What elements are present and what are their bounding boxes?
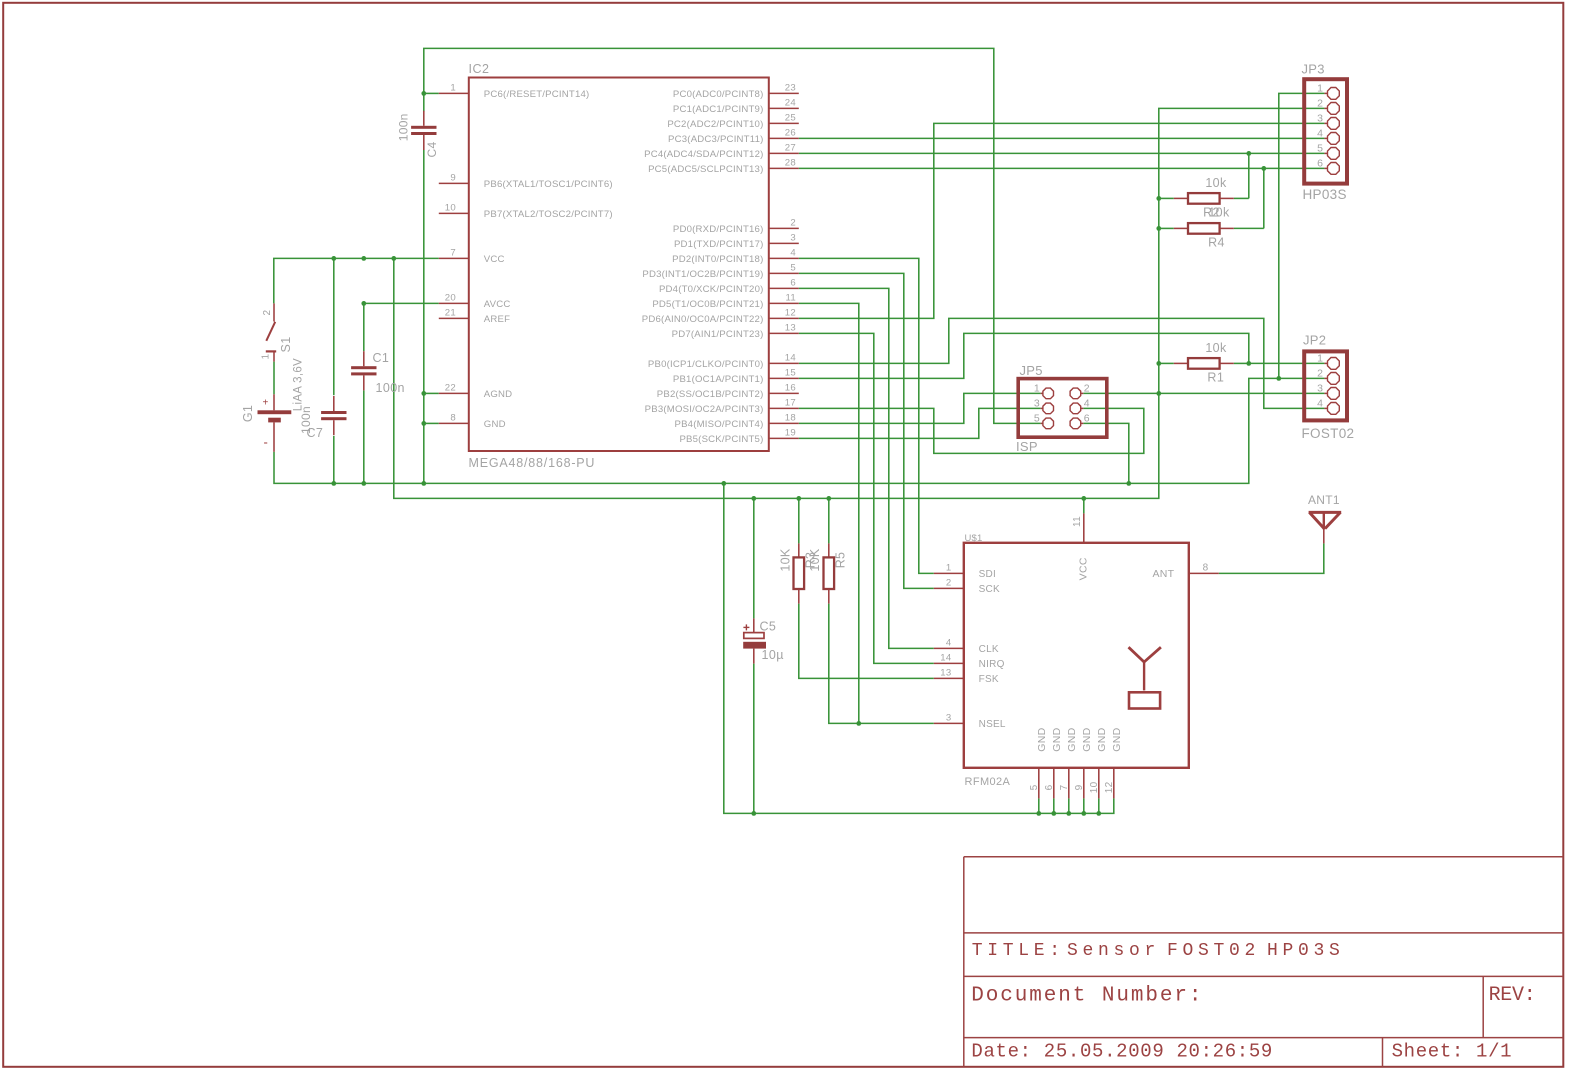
U$1 pin 10 (GND) (1089, 727, 1108, 798)
JP3 pin 3 pad (1317, 113, 1339, 130)
IC2 pin 21 (AREF) (439, 308, 510, 325)
svg-text:3: 3 (946, 713, 952, 724)
wire R2 right (1234, 197, 1249, 199)
svg-text:3: 3 (1317, 383, 1323, 395)
svg-text:7: 7 (1059, 784, 1070, 790)
svg-text:Date: 25.05.2009 20:26:59: Date: 25.05.2009 20:26:59 (971, 1041, 1273, 1063)
IC2 pin 25 (PC2(ADC2/PCINT10)) (667, 113, 798, 130)
svg-text:C1: C1 (373, 351, 390, 365)
svg-text:2: 2 (1084, 383, 1090, 395)
junction (1051, 811, 1056, 816)
svg-text:JP3: JP3 (1302, 62, 1325, 77)
svg-text:14: 14 (785, 353, 797, 364)
JP3 pin 5 pad (1317, 143, 1339, 160)
svg-text:14: 14 (940, 653, 952, 664)
wire R4 to PC5 net (1263, 168, 1265, 228)
junction (721, 481, 726, 486)
U$1 pin 2 (SCK) (934, 578, 1000, 595)
JP2 pin 1 pad (1317, 353, 1339, 370)
svg-text:Sheet: 1/1: Sheet: 1/1 (1392, 1041, 1513, 1063)
svg-text:1: 1 (1034, 383, 1040, 395)
svg-text:26: 26 (785, 128, 796, 139)
wire PB4 MISO to ISP pin1 (799, 393, 1041, 423)
svg-text:PB4(MISO/PCINT4): PB4(MISO/PCINT4) (674, 419, 763, 430)
junction (1156, 361, 1161, 366)
wire PD6 to JP3 pin3 (799, 123, 1325, 318)
U$1 pin 8 (ANT) (1152, 563, 1218, 580)
junction (361, 301, 366, 306)
resistor R3 body (794, 543, 805, 603)
IC2 pin 15 (PB1(OC1A/PCINT1)) (673, 368, 799, 385)
svg-text:PD1(TXD/PCINT17): PD1(TXD/PCINT17) (674, 239, 764, 250)
svg-text:GND: GND (1096, 727, 1108, 751)
svg-text:Sensor FOST02 HP03S: Sensor FOST02 HP03S (1067, 941, 1345, 961)
wire C4 top lead link (423, 93, 425, 111)
wire C4 bottom to GND column (423, 150, 425, 484)
svg-text:2: 2 (790, 218, 796, 229)
svg-text:16: 16 (785, 383, 796, 394)
JP5 pin 3 pad (1034, 398, 1054, 414)
U$1 pin 5 (GND) (1029, 727, 1048, 798)
wire C1 top (363, 303, 365, 351)
wire R2 to PC4 net (1248, 153, 1250, 198)
svg-text:C4: C4 (425, 142, 439, 158)
svg-text:1: 1 (450, 83, 456, 94)
IC2 pin 2 (PD0(RXD/PCINT16)) (673, 218, 799, 235)
svg-text:5: 5 (1034, 413, 1040, 425)
capacitor C4 (411, 111, 436, 150)
wire PD5 to RFM NSEL (799, 303, 859, 723)
IC2 pin 26 (PC3(ADC3/PCINT11)) (668, 128, 799, 145)
svg-text:4: 4 (790, 248, 796, 259)
svg-text:PD7(AIN1/PCINT23): PD7(AIN1/PCINT23) (672, 329, 764, 340)
wire GND pin8 (424, 422, 439, 424)
svg-text:10K: 10K (778, 548, 792, 572)
wire switch S1 to battery G1 (273, 362, 275, 395)
JP5 pin 1 pad (1034, 383, 1054, 399)
wire RFM GND pin to rail (1098, 798, 1100, 813)
IC2 pin 7 (VCC) (439, 248, 505, 265)
wire RFM GND pin to rail (1038, 798, 1040, 813)
IC2 pin 11 (PD5(T1/OC0B/PCINT21)) (652, 293, 798, 310)
svg-text:MEGA48/88/168-PU: MEGA48/88/168-PU (469, 456, 596, 470)
svg-text:R1: R1 (1207, 371, 1224, 385)
svg-text:ISP: ISP (1016, 439, 1038, 454)
U$1 pin 11 (VCC) (1072, 513, 1089, 580)
U$1 pin 1 (SDI) (934, 563, 996, 580)
wire PD2 to RFM SDI (799, 258, 934, 573)
svg-text:VCC: VCC (484, 254, 505, 265)
junction (751, 496, 756, 501)
svg-text:11: 11 (1072, 516, 1083, 527)
JP2 pin 2 pad (1317, 368, 1339, 385)
svg-text:15: 15 (785, 368, 796, 379)
svg-text:11: 11 (785, 293, 796, 304)
svg-text:ANT1: ANT1 (1308, 493, 1340, 507)
svg-text:C5: C5 (760, 620, 777, 634)
svg-text:19: 19 (785, 428, 796, 439)
svg-text:10k: 10k (1205, 341, 1227, 355)
svg-text:13: 13 (940, 668, 951, 679)
svg-text:G1: G1 (241, 405, 255, 422)
resistor R4 body (1174, 223, 1234, 234)
svg-text:PB1(OC1A/PCINT1): PB1(OC1A/PCINT1) (673, 374, 764, 385)
svg-text:1: 1 (260, 353, 271, 359)
wire R4 left to VCC (1159, 227, 1174, 229)
svg-text:5: 5 (790, 263, 796, 274)
connector JP2 body (1304, 351, 1347, 420)
junction (391, 256, 396, 261)
IC2 pin 28 (PC5(ADC5/SCLPCINT13)) (648, 158, 799, 175)
svg-text:REV:: REV: (1489, 984, 1536, 1007)
svg-text:3: 3 (1317, 113, 1323, 125)
svg-text:12: 12 (1104, 781, 1115, 793)
JP3 pin 6 pad (1317, 158, 1339, 175)
svg-text:6: 6 (1317, 158, 1323, 170)
IC2 pin 1 (PC6(/RESET/PCINT14)) (439, 83, 590, 100)
svg-text:9: 9 (450, 173, 456, 184)
svg-text:IC2: IC2 (469, 62, 490, 76)
junction (796, 496, 801, 501)
svg-text:GND: GND (484, 419, 506, 430)
wire RFM GND pin to rail (1083, 798, 1085, 813)
U$1 pin 12 (GND) (1104, 727, 1123, 798)
svg-text:AREF: AREF (484, 314, 510, 325)
svg-text:8: 8 (1203, 563, 1209, 574)
wire ISP pin6 to GND rail (1083, 423, 1129, 483)
wire R5 to NSEL (829, 604, 934, 724)
IC2 pin 14 (PB0(ICP1/CLKO/PCINT0)) (648, 353, 799, 370)
IC2 pin 5 (PD3(INT1/OC2B/PCINT19)) (642, 263, 798, 280)
svg-text:PC6(/RESET/PCINT14): PC6(/RESET/PCINT14) (484, 89, 590, 100)
svg-text:GND: GND (1036, 727, 1048, 751)
IC IC2 MEGA48/88/168-PU body (469, 78, 769, 452)
svg-text:PC0(ADC0/PCINT8): PC0(ADC0/PCINT8) (673, 89, 764, 100)
junction (1156, 196, 1161, 201)
IC2 pin 8 (GND) (439, 413, 506, 430)
U$1 pin 4 (CLK) (934, 638, 999, 655)
IC2 pin 10 (PB7(XTAL2/TOSC2/PCINT7)) (439, 203, 613, 220)
junction (856, 721, 861, 726)
svg-text:GND: GND (1051, 727, 1063, 751)
svg-text:9: 9 (1074, 784, 1085, 790)
wire RFM GND pin to rail (1068, 798, 1070, 813)
svg-text:18: 18 (785, 413, 796, 424)
wire GND rail battery to JP2 pin2 (274, 378, 1324, 483)
wire R3 to RFM FSK (799, 604, 934, 679)
wire VCC to RFM pin11 (1083, 498, 1085, 513)
junction (1156, 391, 1161, 396)
junction (1246, 151, 1251, 156)
JP5 pin 6 pad (1070, 413, 1090, 429)
svg-text:PB3(MOSI/OC2A/PCINT3): PB3(MOSI/OC2A/PCINT3) (645, 404, 764, 415)
svg-text:100n: 100n (376, 381, 405, 395)
svg-text:3: 3 (790, 233, 796, 244)
wire JP3 pin1 to GND rail (1279, 93, 1325, 378)
junction (1246, 361, 1251, 366)
svg-text:PB7(XTAL2/TOSC2/PCINT7): PB7(XTAL2/TOSC2/PCINT7) (484, 209, 613, 220)
svg-text:PD5(T1/OC0B/PCINT21): PD5(T1/OC0B/PCINT21) (652, 299, 763, 310)
wire PD3 to RFM SCK (799, 273, 934, 588)
IC2 pin 20 (AVCC) (439, 293, 511, 310)
svg-text:12: 12 (785, 308, 796, 319)
junction (331, 256, 336, 261)
wire PB1 to R1 and JP2 pin1 (799, 333, 1249, 378)
svg-text:100n: 100n (397, 113, 411, 141)
svg-text:S1: S1 (279, 337, 293, 353)
IC2 pin 3 (PD1(TXD/PCINT17)) (674, 233, 799, 250)
junction (421, 391, 426, 396)
wire PB3 MOSI to ISP pin4 (799, 408, 1144, 453)
junction (1081, 496, 1086, 501)
wire RESET net top rail to ISP pin5 (424, 48, 1041, 423)
wire VCC to C5 (753, 498, 755, 618)
JP5 pin 2 pad (1070, 383, 1090, 399)
svg-text:4: 4 (1317, 128, 1323, 140)
JP5 pin 5 pad (1034, 413, 1054, 429)
IC2 pin 4 (PD2(INT0/PCINT18)) (672, 248, 799, 265)
JP2 pin 3 pad (1317, 383, 1339, 400)
antenna ANT1 (1309, 512, 1342, 543)
title block frame (964, 857, 1564, 1067)
wire RFM GND pin to rail (1053, 798, 1055, 813)
svg-text:28: 28 (785, 158, 796, 169)
wire RESET pin1 to junction (424, 92, 439, 94)
svg-text:PC4(ADC4/SDA/PCINT12): PC4(ADC4/SDA/PCINT12) (644, 149, 763, 160)
IC2 pin 12 (PD6(AIN0/OC0A/PCINT22)) (642, 308, 799, 325)
switch S1 (266, 303, 276, 361)
svg-text:PB0(ICP1/CLKO/PCINT0): PB0(ICP1/CLKO/PCINT0) (648, 359, 764, 370)
svg-text:5: 5 (1317, 143, 1323, 155)
wire VCC to R3 (798, 498, 800, 543)
svg-text:PD0(RXD/PCINT16): PD0(RXD/PCINT16) (673, 224, 764, 235)
svg-text:10: 10 (1089, 781, 1100, 793)
wire C7 top (333, 258, 335, 395)
wire AVCC pin20 (364, 302, 439, 304)
resistor R1 body (1174, 358, 1234, 369)
svg-text:+: + (263, 398, 269, 409)
svg-text:GND: GND (1081, 727, 1093, 751)
wire R2 left to VCC (1159, 197, 1174, 199)
JP3 pin 1 pad (1317, 83, 1339, 100)
svg-text:C7: C7 (307, 426, 324, 440)
junction (1156, 226, 1161, 231)
IC2 pin 24 (PC1(ADC1/PCINT9)) (673, 98, 799, 115)
svg-text:8: 8 (450, 413, 456, 424)
svg-text:4: 4 (1317, 398, 1323, 410)
svg-text:U$1: U$1 (965, 533, 983, 544)
svg-text:10µ: 10µ (762, 648, 784, 662)
svg-text:AGND: AGND (484, 389, 513, 400)
connector JP5 body (1018, 379, 1107, 438)
wire VCC backbone rail to JP3 pin2 (394, 108, 1325, 498)
svg-text:2: 2 (946, 578, 952, 589)
junction (331, 481, 336, 486)
svg-text:R5: R5 (834, 552, 848, 569)
svg-text:4: 4 (946, 638, 952, 649)
svg-text:PC2(ADC2/PCINT10): PC2(ADC2/PCINT10) (667, 119, 763, 130)
wire PB0 to JP2 pin4 (799, 318, 1325, 408)
svg-text:13: 13 (785, 323, 796, 334)
svg-text:-: - (264, 435, 269, 450)
svg-text:JP2: JP2 (1303, 333, 1326, 348)
U$1 pin 14 (NIRQ) (934, 653, 1005, 670)
wire VCC to ISP pin2 and JP2 pin3 (1083, 392, 1324, 394)
svg-text:17: 17 (785, 398, 796, 409)
svg-text:2: 2 (262, 309, 273, 315)
svg-text:PD6(AIN0/OC0A/PCINT22): PD6(AIN0/OC0A/PCINT22) (642, 314, 764, 325)
IC2 pin 13 (PD7(AIN1/PCINT23)) (672, 323, 799, 340)
wire R1 left to VCC (1159, 362, 1174, 364)
U$1 pin 9 (GND) (1074, 727, 1093, 798)
svg-text:5: 5 (1029, 784, 1040, 790)
svg-text:RFM02A: RFM02A (965, 776, 1011, 788)
svg-text:R4: R4 (1208, 235, 1225, 249)
svg-text:3: 3 (1034, 398, 1040, 410)
svg-text:6: 6 (1044, 784, 1055, 790)
junction (1066, 811, 1071, 816)
svg-text:PD3(INT1/OC2B/PCINT19): PD3(INT1/OC2B/PCINT19) (642, 269, 763, 280)
svg-text:PC5(ADC5/SCLPCINT13): PC5(ADC5/SCLPCINT13) (648, 164, 763, 175)
IC2 pin 18 (PB4(MISO/PCINT4)) (674, 413, 798, 430)
wire C1 bottom (363, 390, 365, 483)
wire VCC to R5 (828, 498, 830, 543)
svg-text:GND: GND (1111, 727, 1123, 751)
svg-text:22: 22 (445, 383, 456, 394)
svg-text:24: 24 (785, 98, 797, 109)
U$1 pin 6 (GND) (1044, 727, 1063, 798)
wire AGND pin22 (424, 392, 439, 394)
svg-text:23: 23 (785, 83, 796, 94)
svg-text:20: 20 (445, 293, 456, 304)
junction (1261, 166, 1266, 171)
svg-text:HP03S: HP03S (1303, 187, 1347, 202)
svg-text:PB5(SCK/PCINT5): PB5(SCK/PCINT5) (679, 434, 763, 445)
svg-text:27: 27 (785, 143, 796, 154)
svg-text:25: 25 (785, 113, 796, 124)
svg-text:10K: 10K (808, 548, 822, 572)
wire GND rail bottom (724, 483, 1114, 813)
wire VCC top rail to switch (274, 258, 439, 303)
svg-text:TITLE:: TITLE: (972, 941, 1065, 961)
junction (361, 481, 366, 486)
wire C7 bottom (333, 436, 335, 484)
IC2 pin 23 (PC0(ADC0/PCINT8)) (673, 83, 799, 100)
wire R1 to JP2 pin1 (1249, 362, 1325, 364)
wire PD7 to RFM NIRQ (799, 333, 934, 663)
JP3 pin 4 pad (1317, 128, 1339, 145)
wire R4 right (1234, 227, 1264, 229)
svg-text:4: 4 (1084, 398, 1090, 410)
junction (751, 811, 756, 816)
IC2 pin 27 (PC4(ADC4/SDA/PCINT12)) (644, 143, 799, 160)
capacitor C7 (321, 396, 346, 435)
svg-text:NIRQ: NIRQ (979, 659, 1005, 670)
JP2 pin 4 pad (1317, 398, 1339, 415)
svg-text:AVCC: AVCC (484, 299, 511, 310)
junction (1126, 481, 1131, 486)
junction (421, 91, 426, 96)
svg-text:VCC: VCC (1077, 557, 1089, 580)
svg-text:10: 10 (445, 203, 456, 214)
IC2 pin 22 (AGND) (439, 383, 513, 400)
svg-text:GND: GND (1066, 727, 1078, 751)
wire C5 to GND rail (753, 664, 755, 814)
svg-text:FOST02: FOST02 (1302, 426, 1355, 441)
svg-text:SDI: SDI (979, 569, 996, 580)
U$1 pin 13 (FSK) (934, 668, 999, 685)
svg-text:PD2(INT0/PCINT18): PD2(INT0/PCINT18) (672, 254, 763, 265)
svg-text:1: 1 (1317, 353, 1323, 365)
svg-text:10k: 10k (1205, 176, 1227, 190)
resistor R2 body (1174, 193, 1234, 204)
svg-text:Document Number:: Document Number: (971, 985, 1203, 1008)
IC2 pin 19 (PB5(SCK/PCINT5)) (679, 428, 798, 445)
svg-text:1: 1 (946, 563, 952, 574)
junction (1096, 811, 1101, 816)
svg-text:PB6(XTAL1/TOSC1/PCINT6): PB6(XTAL1/TOSC1/PCINT6) (484, 179, 613, 190)
junction (421, 421, 426, 426)
junction (1036, 811, 1041, 816)
wire R1 right (1234, 362, 1249, 364)
svg-text:10k: 10k (1208, 206, 1230, 220)
svg-text:JP5: JP5 (1020, 363, 1043, 378)
svg-text:ANT: ANT (1152, 568, 1174, 580)
connector JP3 body (1304, 79, 1347, 183)
wire PC5 to JP3 pin6 (799, 167, 1325, 169)
wire PD4 to RFM CLK (799, 288, 934, 648)
junction (421, 481, 426, 486)
svg-text:PC1(ADC1/PCINT9): PC1(ADC1/PCINT9) (673, 104, 764, 115)
JP3 pin 2 pad (1317, 98, 1339, 115)
svg-text:LiAA 3,6V: LiAA 3,6V (293, 358, 305, 411)
junction (1276, 376, 1281, 381)
IC2 pin 9 (PB6(XTAL1/TOSC1/PCINT6)) (439, 173, 613, 190)
svg-text:6: 6 (1084, 413, 1090, 425)
wire PC4 to JP3 pin5 (799, 152, 1325, 154)
capacitor C1 (351, 351, 376, 390)
wire PB5 SCK to ISP pin3 (799, 408, 1041, 438)
battery G1 (258, 394, 292, 452)
svg-text:CLK: CLK (979, 644, 999, 655)
svg-text:FSK: FSK (979, 674, 999, 685)
resistor R5 body (824, 543, 835, 603)
svg-text:21: 21 (445, 308, 456, 319)
IC U$1 RFM02A body (964, 543, 1189, 768)
antenna glyph inside U$1 (1129, 647, 1161, 708)
svg-text:NSEL: NSEL (979, 719, 1006, 730)
svg-text:SCK: SCK (979, 584, 1000, 595)
svg-text:PB2(SS/OC1B/PCINT2): PB2(SS/OC1B/PCINT2) (657, 389, 764, 400)
wire PC3 to JP3 pin4 (799, 137, 1325, 139)
junction (1081, 811, 1086, 816)
wire RFM ANT to ANT1 (1219, 543, 1324, 573)
junction (361, 256, 366, 261)
IC2 pin 16 (PB2(SS/OC1B/PCINT2)) (657, 383, 799, 400)
IC2 pin 17 (PB3(MOSI/OC2A/PCINT3)) (645, 398, 799, 415)
svg-text:PD4(T0/XCK/PCINT20): PD4(T0/XCK/PCINT20) (659, 284, 764, 295)
svg-text:1: 1 (1317, 83, 1323, 95)
svg-text:PC3(ADC3/PCINT11): PC3(ADC3/PCINT11) (668, 134, 763, 145)
svg-text:7: 7 (450, 248, 456, 259)
svg-text:6: 6 (790, 278, 796, 289)
svg-text:2: 2 (1317, 98, 1323, 110)
U$1 pin 3 (NSEL) (934, 713, 1006, 730)
capacitor C5 (polarized) (743, 618, 766, 663)
svg-text:2: 2 (1317, 368, 1323, 380)
JP5 pin 4 pad (1070, 398, 1090, 414)
IC2 pin 6 (PD4(T0/XCK/PCINT20)) (659, 278, 799, 295)
